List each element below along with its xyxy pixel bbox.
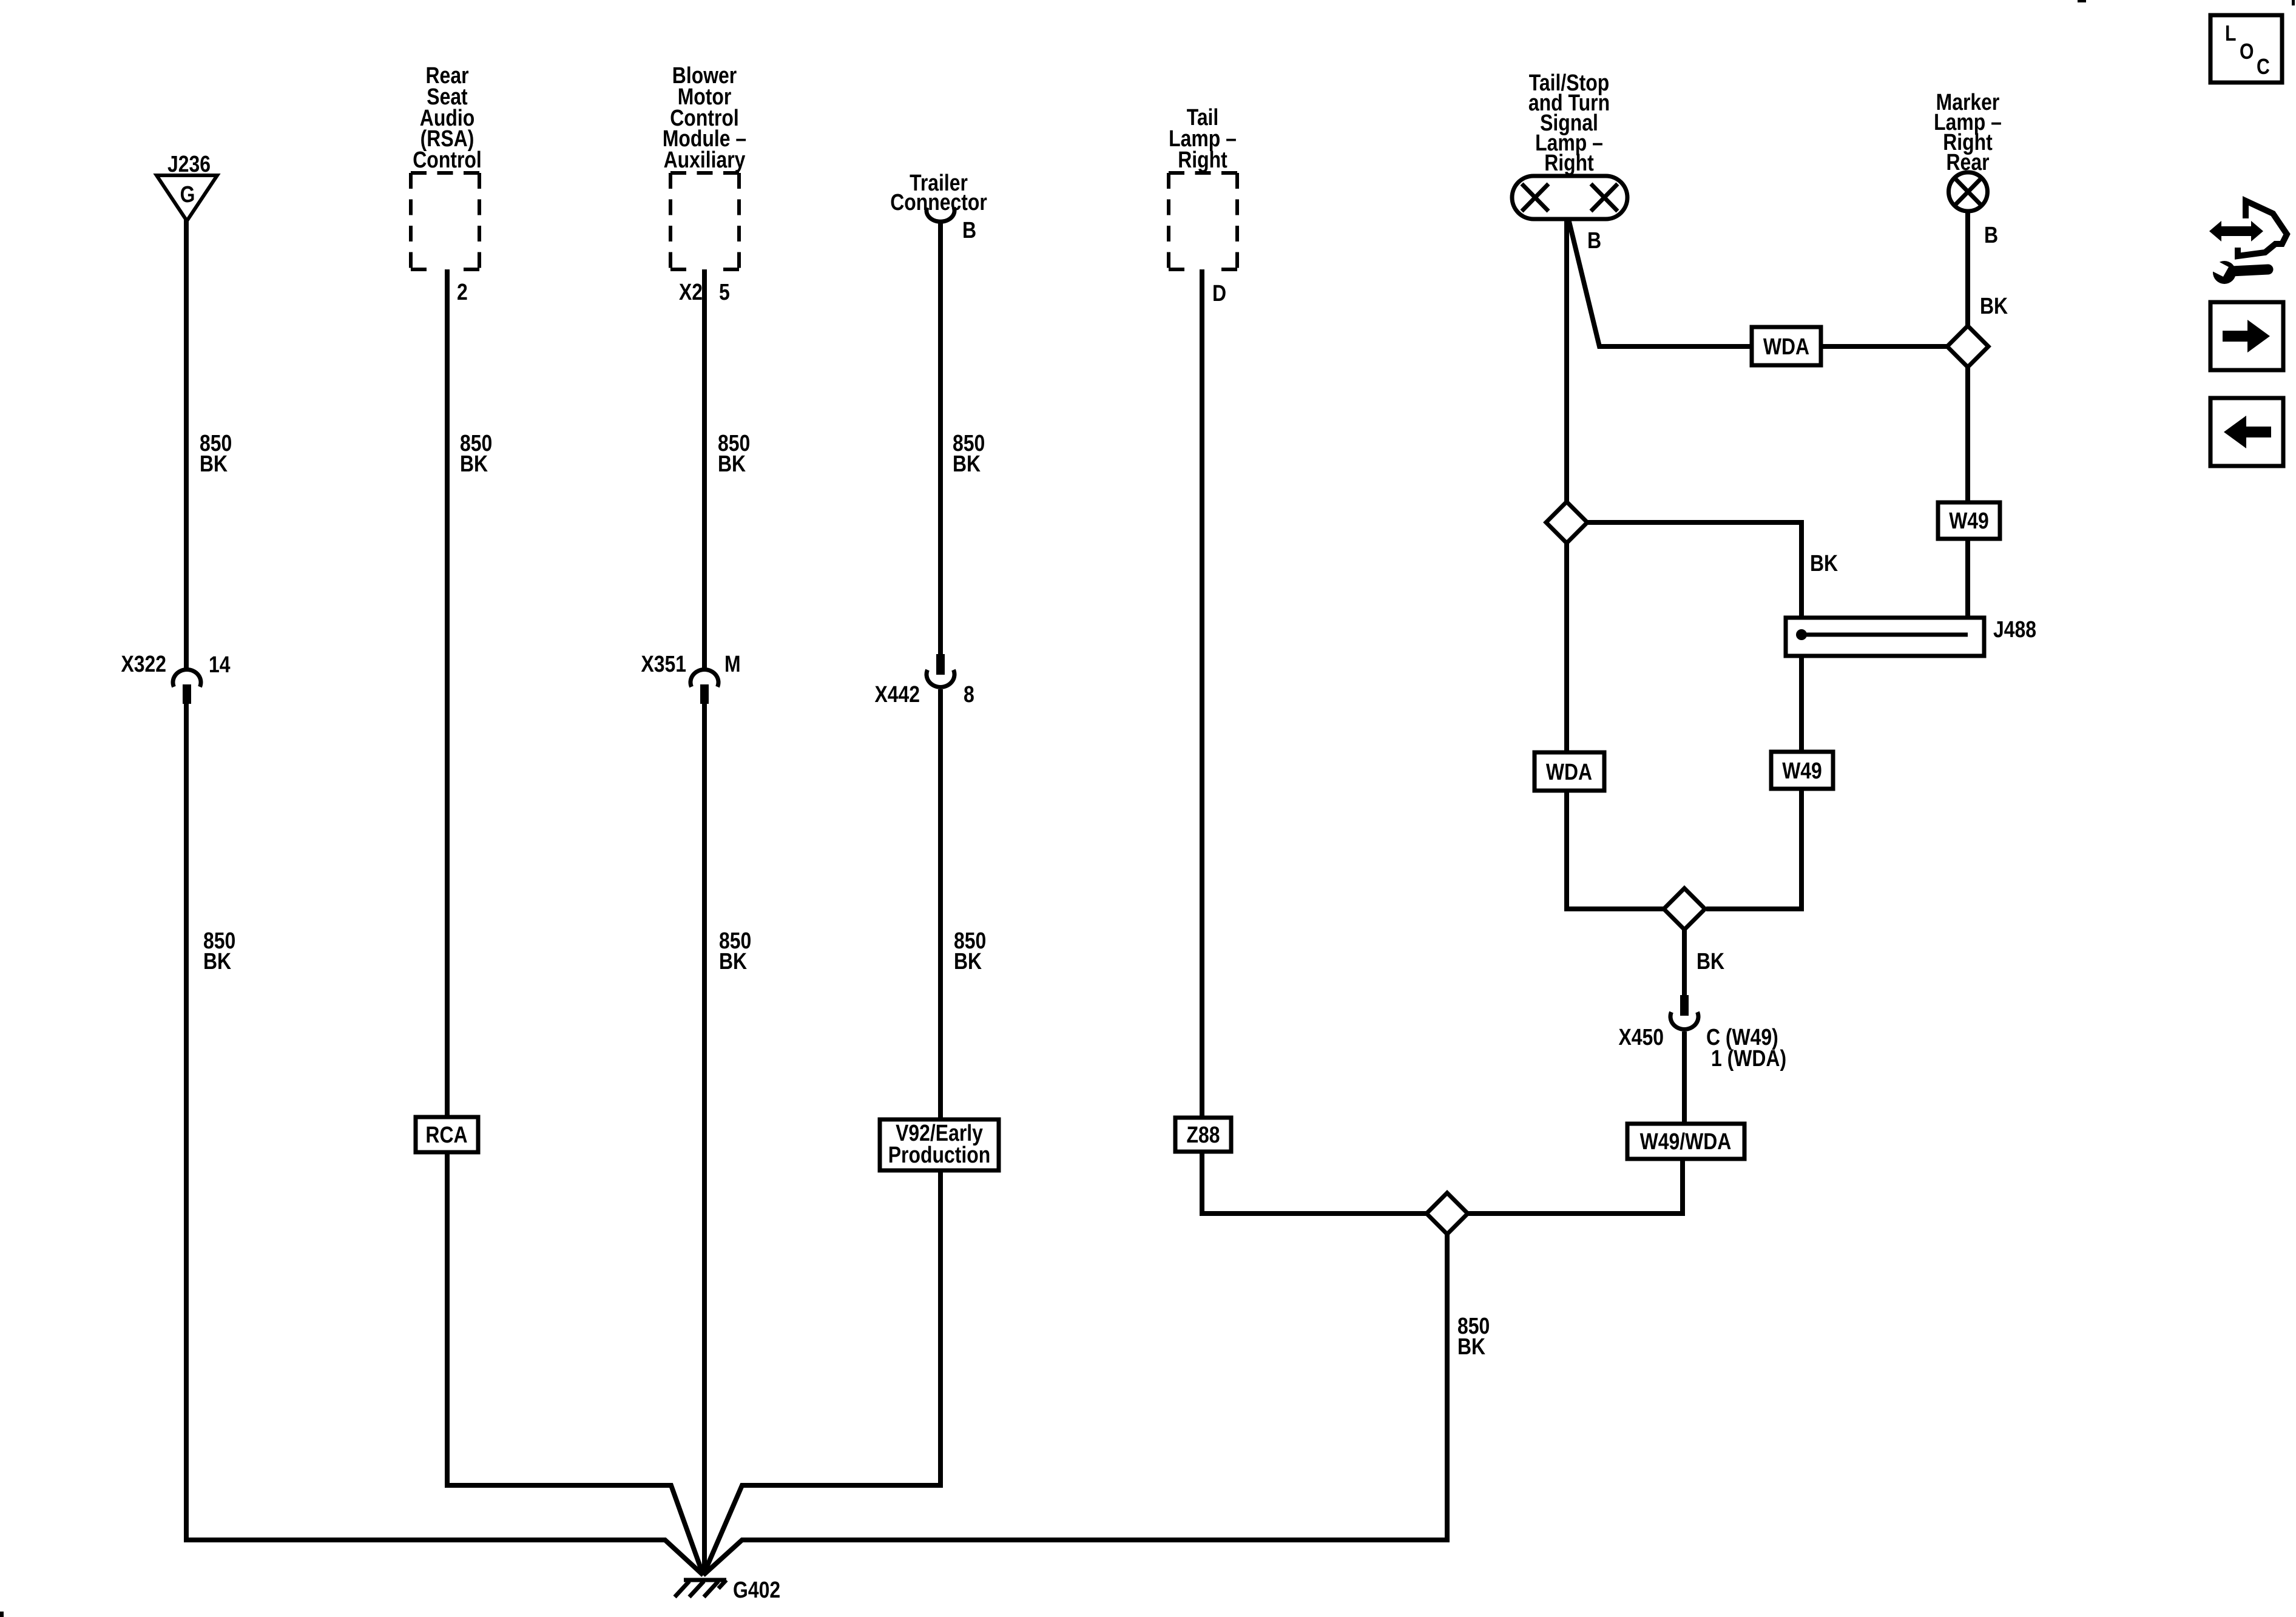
splice box Z88 <box>1175 1118 1231 1152</box>
svg-text:2: 2 <box>457 280 468 305</box>
svg-text:C: C <box>2257 54 2270 79</box>
wire diamond D3 down to X450 <box>1682 930 1687 996</box>
wire Tail Lamp ground wire lower to junction <box>1202 1150 1426 1214</box>
label title Rear Seat Audio (RSA) Control <box>413 63 482 173</box>
svg-text:J488: J488 <box>1993 617 2036 643</box>
svg-text:O: O <box>2240 39 2254 64</box>
connector X442 female arc <box>927 670 954 687</box>
wire junction D4 to W49/WDA branch <box>1468 1158 1683 1214</box>
speck top edge artifact 1 <box>2078 0 2086 2</box>
connector X322 male tick <box>183 684 191 704</box>
wire Trailer ground wire lower <box>938 689 943 1120</box>
svg-text:Z88: Z88 <box>1187 1122 1220 1148</box>
svg-text:L: L <box>2225 21 2237 46</box>
label title Marker Lamp Right Rear <box>1934 90 2002 175</box>
svg-text:B: B <box>1587 228 1601 254</box>
speck top-right artifact 2 <box>2292 0 2295 5</box>
splice box RCA <box>416 1117 478 1152</box>
connector X351 female arc <box>690 670 718 687</box>
svg-text:BK: BK <box>460 451 488 477</box>
svg-text:Rear: Rear <box>1947 150 1990 175</box>
icon wrench <box>2206 258 2268 284</box>
splice diamond D1 on B wire <box>1546 502 1587 543</box>
svg-text:14: 14 <box>209 652 231 678</box>
wire diamond D1 right to J488 left drop <box>1587 522 1801 632</box>
splice diamond D2 below marker lamp <box>1947 326 1988 367</box>
filament X left <box>1522 184 1548 211</box>
lamp Tail/Stop and Turn Signal Lamp Right (stadium with two filaments) <box>1512 176 1627 219</box>
wire J488 left drop to W49 box <box>1799 635 1804 752</box>
svg-text:1 (WDA): 1 (WDA) <box>1711 1046 1786 1072</box>
svg-text:B: B <box>1984 223 1998 248</box>
component Trailer Connector half-connector symbol <box>927 208 954 221</box>
wire diamond D1 bottom to WDA box <box>1564 543 1569 754</box>
lamp Marker Lamp Right Rear (circle with X) <box>1949 172 1988 211</box>
wire Blower ground wire lower <box>702 703 707 1575</box>
icon LOC box <box>2210 15 2282 83</box>
component Blower Motor Control Module dashed box <box>670 173 739 269</box>
splice box W49/WDA <box>1627 1124 1744 1159</box>
wire marker lamp B wire to diamond D2 <box>1965 213 1970 326</box>
svg-text:Production: Production <box>888 1143 991 1168</box>
svg-text:Right: Right <box>1178 147 1227 173</box>
svg-text:BK: BK <box>719 949 748 974</box>
wire J236 ground wire (left column) <box>184 220 189 1540</box>
svg-text:D: D <box>1212 281 1226 306</box>
wire Trailer ground wire upper <box>938 222 943 655</box>
wire W49 box down to J488 bus right end <box>1965 537 1970 635</box>
speck bottom-left page artifact <box>0 1612 4 1617</box>
svg-text:X450: X450 <box>1619 1025 1664 1050</box>
label title Tail/Stop and Turn Signal Lamp Right <box>1528 70 1610 176</box>
svg-text:BK: BK <box>954 949 982 974</box>
svg-text:WDA: WDA <box>1546 760 1592 785</box>
splice pack J488 <box>1786 618 1984 656</box>
wire bottom ground bus right segment <box>703 1232 1447 1575</box>
wire X450 to W49/WDA box <box>1682 1031 1687 1125</box>
splice box WDA mid <box>1535 752 1604 791</box>
svg-text:Right: Right <box>1544 150 1594 176</box>
node J236 ground distribution triangle <box>157 175 217 221</box>
splice box V92/Early Production <box>880 1119 999 1170</box>
splice box WDA top <box>1752 327 1821 365</box>
connector X450 female arc <box>1670 1012 1698 1029</box>
label title Tail Lamp Right <box>1169 105 1237 173</box>
connector X351 male tick <box>700 684 709 704</box>
ground G402 symbol hatching <box>675 1580 726 1597</box>
wire Blower ground wire upper <box>702 269 707 669</box>
label title Trailer Connector <box>890 170 987 215</box>
icon harness double arrow <box>2209 221 2263 241</box>
svg-text:BK: BK <box>953 451 981 477</box>
svg-text:BK: BK <box>1980 294 2008 319</box>
svg-text:W49: W49 <box>1949 508 1989 534</box>
svg-text:X442: X442 <box>875 682 920 707</box>
label title Blower Motor Control Module Auxiliary <box>663 63 746 173</box>
wire stadium lamp B wire down to diamond D1 <box>1564 219 1569 502</box>
connector X450 male tick <box>1680 995 1689 1016</box>
svg-text:Connector: Connector <box>890 190 987 215</box>
svg-text:X351: X351 <box>641 652 687 677</box>
svg-text:Auxiliary: Auxiliary <box>664 147 746 173</box>
svg-text:W49: W49 <box>1782 758 1822 784</box>
svg-text:X322: X322 <box>121 652 167 677</box>
svg-text:G: G <box>180 182 195 208</box>
icon left arrow box <box>2210 398 2283 466</box>
wire bottom ground bus left segment <box>184 1540 703 1575</box>
splice diamond D3 on U junction <box>1664 888 1705 930</box>
svg-text:X2: X2 <box>679 280 703 305</box>
wire stadium lamp diagonal to WDA splice line <box>1568 219 1752 346</box>
svg-text:BK: BK <box>718 451 746 477</box>
splice box W49 upper right <box>1938 502 2000 539</box>
wire RSA ground wire upper <box>445 269 450 1118</box>
svg-text:BK: BK <box>1810 551 1838 576</box>
wire Tail Lamp ground wire upper <box>1200 269 1204 1119</box>
svg-text:WDA: WDA <box>1763 334 1809 360</box>
connector X322 female arc <box>173 670 201 687</box>
svg-text:J236: J236 <box>167 152 211 177</box>
wire WDA box to diamond D2 <box>1819 344 1947 349</box>
splice box W49 mid <box>1771 752 1833 789</box>
svg-text:G402: G402 <box>733 1578 780 1603</box>
svg-text:Control: Control <box>413 147 482 173</box>
splice diamond D4 bottom junction <box>1427 1193 1468 1234</box>
wire W49 box to U-turn corner right <box>1706 788 1801 909</box>
svg-text:W49/WDA: W49/WDA <box>1640 1129 1732 1155</box>
component Tail Lamp Right dashed box <box>1169 173 1237 269</box>
icon harness outline <box>2238 201 2287 256</box>
svg-text:B: B <box>962 218 976 243</box>
svg-text:5: 5 <box>719 280 730 305</box>
svg-text:BK: BK <box>203 949 232 974</box>
filament X right <box>1591 184 1618 211</box>
svg-text:RCA: RCA <box>425 1122 467 1148</box>
icon right arrow box <box>2210 302 2283 370</box>
wire WDA box to U-turn corner left <box>1567 790 1664 909</box>
wire diamond D2 to W49 box <box>1965 367 1970 504</box>
component RSA Control dashed box <box>411 173 479 269</box>
connector X442 male tick <box>936 654 945 675</box>
svg-text:BK: BK <box>200 451 228 477</box>
svg-text:8: 8 <box>964 682 974 707</box>
wire Trailer ground wire below V92 <box>703 1170 940 1575</box>
svg-text:BK: BK <box>1697 949 1725 974</box>
svg-text:M: M <box>724 652 741 677</box>
wire RSA ground wire lower <box>447 1152 703 1575</box>
svg-text:BK: BK <box>1457 1334 1486 1360</box>
